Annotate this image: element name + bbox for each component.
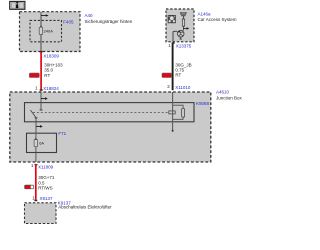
svg-text:1: 1 — [32, 195, 35, 200]
connector X11809 pin 1 — [31, 163, 54, 169]
relay contact fixed tick — [40, 110, 43, 111]
svg-text:A146a: A146a — [198, 11, 212, 16]
label K9137 Abschaltrelais — [58, 201, 112, 210]
svg-text:6A: 6A — [39, 141, 44, 146]
svg-text:1: 1 — [168, 43, 171, 48]
wire 30G_JB RT (black) — [172, 44, 174, 90]
svg-text:Sicherungsträger hinten: Sicherungsträger hinten — [85, 19, 133, 24]
svg-text:1: 1 — [31, 163, 34, 168]
fuse module F405 box — [30, 20, 62, 41]
svg-text:A40: A40 — [85, 13, 94, 18]
label A40 Sicherungstraeger hinten — [85, 13, 133, 24]
fuse F405 symbol — [39, 25, 43, 34]
label F405 — [63, 19, 74, 24]
wire labels 30H+103 35.0 RT — [44, 62, 63, 77]
svg-text:X11809: X11809 — [38, 164, 54, 169]
connector X11010 pin 2 — [167, 84, 191, 90]
fuse carrier A40 box — [20, 12, 81, 52]
svg-text:RT/WS: RT/WS — [38, 186, 52, 191]
svg-text:A4610: A4610 — [216, 89, 230, 94]
label F71 — [58, 131, 66, 136]
wire 30G+71 RT/WS (red) — [34, 164, 37, 201]
connector X9137 pin 1 — [32, 195, 53, 200]
relay contact blade — [30, 110, 37, 118]
fuse F71 box — [27, 133, 57, 152]
wire (JB left lower to F71) — [35, 118, 37, 135]
label A146a Car Access System — [198, 11, 237, 22]
connector X13375 pin 1 — [168, 42, 192, 48]
svg-text:F405: F405 — [63, 19, 74, 24]
svg-text:RT: RT — [44, 73, 50, 78]
svg-text:RT: RT — [175, 73, 181, 78]
wire (through F71) — [35, 134, 37, 162]
svg-text:1: 1 — [35, 85, 38, 90]
label A4610 Junction Box — [216, 89, 243, 100]
svg-text:X18309: X18309 — [43, 53, 59, 58]
svg-text:K9068: K9068 — [196, 101, 210, 106]
svg-text:Junction Box: Junction Box — [216, 96, 243, 101]
ignition switch icon — [177, 30, 184, 40]
svg-text:F71: F71 — [58, 131, 66, 136]
continuation arrow (to F71) — [36, 125, 43, 128]
svg-text:X11010: X11010 — [175, 85, 191, 90]
relay block (bus bar rect) — [25, 103, 195, 122]
wire (JB left upper) — [40, 91, 42, 110]
info icon — [10, 1, 25, 9]
module icon — [168, 15, 176, 23]
antenna icon — [180, 13, 186, 19]
svg-text:240A: 240A — [44, 29, 54, 34]
fuse F71 symbol — [34, 138, 38, 147]
svg-text:Car Access System: Car Access System — [198, 17, 237, 22]
wire (JB right internal) — [172, 92, 174, 130]
wire labels 30G_JB 0.75 RT — [175, 62, 191, 77]
wire (A40 internal vertical) — [40, 12, 42, 52]
label K9068 — [196, 101, 210, 106]
resistor (CAS internal) — [182, 19, 184, 26]
wire end dot — [172, 130, 174, 132]
connector X18824 pin 1 — [35, 85, 59, 91]
svg-text:X9137: X9137 — [40, 196, 54, 201]
svg-text:30G+71: 30G+71 — [38, 175, 55, 180]
value label 6A — [39, 141, 44, 146]
value label 240A — [44, 29, 54, 34]
svg-text:Abschaltrelais Elektrolüfter: Abschaltrelais Elektrolüfter — [58, 204, 112, 209]
actuation dashed line — [33, 111, 169, 113]
svg-text:2: 2 — [167, 84, 170, 89]
svg-text:X18824: X18824 — [43, 86, 59, 91]
continuation arrow (top) — [41, 14, 49, 17]
continuation arrow (CAS) — [183, 27, 189, 29]
wire color chip RT — [29, 73, 39, 77]
wire (CAS internal) — [182, 26, 184, 29]
relay coil — [169, 105, 185, 119]
wire color chip RT/WS — [25, 185, 34, 189]
connector X18309 — [43, 53, 59, 58]
relay K9137 box — [25, 203, 57, 224]
junction box A4610 — [10, 92, 211, 162]
wire (CAS output) — [173, 31, 177, 42]
wire 30H+103 RT (red) — [40, 51, 43, 91]
wire labels 30G+71 0.5 RT/WS — [38, 175, 55, 191]
svg-text:X13375: X13375 — [176, 43, 192, 48]
continuation arrow (JB left) — [41, 97, 48, 100]
Car Access System box A146a — [166, 9, 194, 42]
wire color chip RT (CAS) — [162, 73, 171, 77]
